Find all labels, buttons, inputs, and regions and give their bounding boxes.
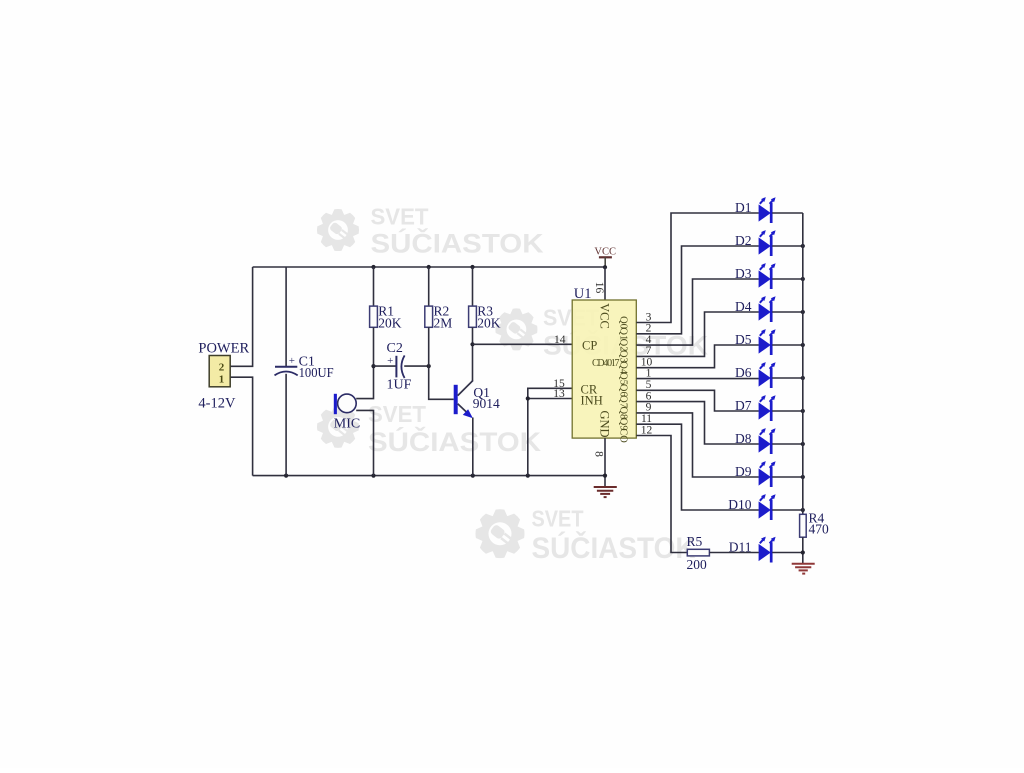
wire pin 4 to D3 <box>636 279 759 345</box>
wire D5 cathode <box>772 344 803 346</box>
node C2-R2 junction <box>427 364 431 368</box>
svg-text:CD4017: CD4017 <box>592 358 620 369</box>
wire R3 bottom to collector <box>472 327 474 381</box>
LED D1 <box>759 197 776 223</box>
svg-text:CO: CO <box>618 428 629 443</box>
wire R1 top <box>373 267 375 306</box>
wire INH pin13 <box>528 398 572 400</box>
watermark bottom-left <box>317 401 542 457</box>
svg-text:+: + <box>387 355 393 367</box>
svg-text:470: 470 <box>809 521 830 536</box>
wire top VCC rail <box>253 266 605 268</box>
svg-text:+: + <box>289 355 295 367</box>
svg-text:100UF: 100UF <box>299 366 334 381</box>
resistor R4 <box>800 514 807 537</box>
capacitor C1 <box>275 355 298 375</box>
node collector-CP junction <box>470 342 474 346</box>
wire left rail lower (pin1 to bottom rail) <box>230 377 252 475</box>
wire R3 top <box>472 267 474 306</box>
svg-text:D4: D4 <box>735 299 752 314</box>
LED D3 <box>759 263 776 289</box>
LED D2 <box>759 230 776 256</box>
svg-text:3: 3 <box>646 311 652 323</box>
svg-text:14: 14 <box>554 334 566 346</box>
wire pin 1 to D6 <box>636 378 759 380</box>
svg-text:D9: D9 <box>735 464 752 479</box>
node D7 rail junction <box>801 409 805 413</box>
node D2 rail junction <box>801 244 805 248</box>
svg-text:VCC: VCC <box>598 303 612 329</box>
node D6 rail junction <box>801 376 805 380</box>
wire pin 7 to D4 <box>636 312 759 356</box>
LED D5 <box>759 329 776 355</box>
wire pin 10 to D5 <box>636 345 759 368</box>
wire C2 to R2 line <box>404 365 429 367</box>
watermark middle <box>495 305 708 361</box>
wire pin8 GND <box>604 438 606 486</box>
node D3 rail junction <box>801 277 805 281</box>
resistor R2 <box>425 306 433 327</box>
svg-text:5: 5 <box>646 379 652 391</box>
node MIC bottom rail junction <box>371 474 375 478</box>
wire D7 cathode <box>772 410 803 412</box>
resistor R1 <box>370 306 378 327</box>
svg-text:7: 7 <box>646 345 652 357</box>
wire D2 cathode <box>772 245 803 247</box>
wire pin 9 to D9 <box>636 413 759 477</box>
watermark bottom-center <box>476 506 696 565</box>
wire pin 5 to D7 <box>636 390 759 411</box>
wire D4 cathode <box>772 311 803 313</box>
node D5 rail junction <box>801 343 805 347</box>
microphone MIC <box>334 394 356 414</box>
wire D8 cathode <box>772 443 803 445</box>
ground symbol right <box>792 564 815 574</box>
wire pin 12 to D11 <box>636 436 687 553</box>
node R2 top rail junction <box>427 265 431 269</box>
svg-text:POWER: POWER <box>198 340 249 356</box>
node D8 rail junction <box>801 442 805 446</box>
svg-text:D3: D3 <box>735 266 752 281</box>
LED D8 <box>759 428 776 454</box>
wire pin 2 to D2 <box>636 246 759 334</box>
wire D11 cathode <box>772 552 803 554</box>
wire R2 top <box>428 267 430 306</box>
svg-text:MIC: MIC <box>334 417 360 432</box>
wire CP (pin14) <box>473 343 573 345</box>
svg-text:11: 11 <box>641 413 652 425</box>
LED D10 <box>759 494 776 520</box>
svg-text:16: 16 <box>593 282 605 294</box>
svg-text:D8: D8 <box>735 431 752 446</box>
svg-text:2: 2 <box>219 361 225 373</box>
wire R1 bottom to mic junction <box>356 327 373 398</box>
wire junction to C2 <box>374 365 397 367</box>
LED D4 <box>759 296 776 322</box>
svg-text:SVET: SVET <box>532 506 584 532</box>
svg-text:D1: D1 <box>735 200 752 215</box>
node R3 top rail junction <box>470 265 474 269</box>
node D9 rail junction <box>801 475 805 479</box>
svg-text:1: 1 <box>646 367 652 379</box>
resistor R5 <box>687 549 709 556</box>
wire CR pin15 <box>528 388 572 475</box>
svg-text:D5: D5 <box>735 332 752 347</box>
ground symbol center <box>594 487 617 497</box>
svg-text:13: 13 <box>553 388 565 400</box>
power VCC symbol <box>594 246 616 267</box>
wire D9 cathode <box>772 476 803 478</box>
svg-text:6: 6 <box>646 390 652 402</box>
svg-text:SVET: SVET <box>371 204 429 230</box>
node VCC-rail junction <box>603 265 607 269</box>
svg-text:GND: GND <box>598 410 612 437</box>
svg-text:SVET: SVET <box>368 401 426 427</box>
node Q1 emitter rail junction <box>471 474 475 478</box>
wire bottom ground rail <box>253 475 605 477</box>
svg-text:D6: D6 <box>735 365 752 380</box>
node C1 bottom rail junction <box>284 474 288 478</box>
wire R5 to D11 <box>709 552 758 554</box>
svg-text:D7: D7 <box>735 398 752 413</box>
svg-text:4: 4 <box>646 334 652 346</box>
capacitor C2 <box>387 355 405 378</box>
wire C1 bottom branch <box>285 374 287 476</box>
wire pin16 <box>604 267 606 300</box>
wire C1 top branch <box>285 267 287 366</box>
wire pin 11 to D10 <box>636 424 759 510</box>
LED D9 <box>759 461 776 487</box>
LED D7 <box>759 395 776 421</box>
node D11 junction <box>801 550 805 554</box>
svg-text:9: 9 <box>646 402 652 414</box>
svg-text:20K: 20K <box>378 315 402 330</box>
svg-text:1UF: 1UF <box>387 377 412 392</box>
wire left rail upper (pin2 to top rail) <box>230 267 252 366</box>
wire D10 cathode <box>772 509 803 511</box>
svg-text:SÚČIASTOK: SÚČIASTOK <box>371 227 545 258</box>
svg-text:INH: INH <box>581 393 603 407</box>
node CR-INH rail junction <box>526 474 530 478</box>
wire Q1 emitter to ground rail <box>472 418 474 476</box>
wire pin 6 to D8 <box>636 402 759 444</box>
LED D6 <box>759 362 776 388</box>
node R1 top rail junction <box>371 265 375 269</box>
svg-text:9014: 9014 <box>473 396 500 411</box>
wire D6 cathode <box>772 377 803 379</box>
svg-text:20K: 20K <box>477 315 501 330</box>
svg-text:8: 8 <box>593 451 605 457</box>
node CR-INH junction <box>526 396 530 400</box>
svg-text:1: 1 <box>219 373 225 385</box>
node GND-rail junction <box>603 474 607 478</box>
node D10 rail junction <box>801 508 805 512</box>
node D4 rail junction <box>801 310 805 314</box>
wire R2 bottom to Q1 base <box>429 327 454 399</box>
svg-text:CP: CP <box>582 339 597 353</box>
svg-text:2M: 2M <box>434 315 453 330</box>
svg-text:R5: R5 <box>687 534 703 549</box>
resistor R3 <box>469 306 477 327</box>
connector POWER <box>209 356 230 387</box>
wire MIC bottom to ground rail <box>356 410 373 475</box>
LED D11 <box>759 537 776 563</box>
svg-text:4-12V: 4-12V <box>198 396 236 412</box>
wire D1 cathode <box>772 212 803 214</box>
watermark top-left <box>317 204 544 259</box>
svg-text:D2: D2 <box>735 233 752 248</box>
svg-text:U1: U1 <box>574 286 592 302</box>
wire D3 cathode <box>772 278 803 280</box>
node R1-C2 junction <box>371 364 375 368</box>
wire pin 3 to D1 <box>636 213 759 323</box>
svg-text:VCC: VCC <box>594 246 616 257</box>
transistor Q1 <box>454 380 473 418</box>
op-amp U1 CD4017 body <box>572 300 636 438</box>
svg-text:SÚČIASTOK: SÚČIASTOK <box>368 426 542 457</box>
svg-text:200: 200 <box>687 557 708 572</box>
svg-text:2: 2 <box>646 323 652 335</box>
wire R4 bottom <box>802 537 804 563</box>
svg-text:C2: C2 <box>387 341 403 356</box>
svg-text:12: 12 <box>641 424 653 436</box>
svg-text:D10: D10 <box>728 497 751 512</box>
wire right cathode rail <box>802 213 804 514</box>
